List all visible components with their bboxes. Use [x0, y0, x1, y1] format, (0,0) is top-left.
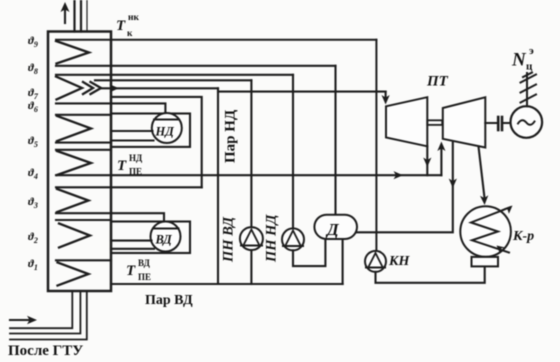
ND drum riser/downcomer wires — [111, 130, 153, 132]
condenser cooling water zigzag with arrows — [471, 206, 513, 254]
VD drum box — [111, 222, 190, 254]
coil C6 (HP evaporator) zigzag — [59, 224, 90, 248]
svg-text:НД: НД — [155, 125, 175, 139]
deaerator Д — [314, 215, 357, 239]
coil C4 zigzag — [57, 151, 91, 175]
coil C3 (HP economizer) zigzag — [57, 116, 91, 141]
svg-text:ϑ4: ϑ4 — [28, 167, 38, 181]
svg-text:Пар НД: Пар НД — [223, 109, 239, 163]
wire: C3 top line — [56, 114, 111, 116]
condenser K-p — [460, 206, 511, 257]
svg-text:НД: НД — [129, 153, 143, 163]
svg-text:ϑ2: ϑ2 — [28, 231, 38, 245]
wire: C3 bottom line — [56, 142, 111, 144]
generator electrical lead with phase slashes — [521, 73, 537, 107]
wire: Par ND steam line with arrow — [101, 84, 218, 92]
coil C5 (LP evaporator 2) zigzag — [57, 189, 89, 212]
label Tк-нк — [116, 13, 139, 39]
VD drum circle — [151, 222, 181, 252]
ND drum water level chord — [154, 119, 179, 121]
svg-text:ϑ5: ϑ5 — [28, 135, 38, 149]
svg-text:ϑ3: ϑ3 — [28, 196, 38, 210]
wire: riser x=292 down to PN-ND pump — [292, 75, 294, 229]
svg-text:э: э — [529, 45, 534, 57]
wire: bottom header left part and risers — [342, 239, 344, 284]
ND drum feed line — [56, 103, 165, 113]
turbine shaft HP-LP — [427, 120, 442, 125]
coil C7 (HP superheater) zigzag — [58, 263, 89, 286]
wire: VD drum feed line — [56, 213, 164, 223]
wire: PN-VD suction down — [250, 250, 252, 284]
svg-text:ϑ9: ϑ9 — [28, 35, 38, 49]
svg-text:ϑ1: ϑ1 — [28, 258, 38, 272]
wire: LP admission riser with up arrow — [437, 142, 445, 176]
LP turbine cylinder — [443, 97, 486, 147]
wire: KH suction from condenser hotwell — [376, 266, 485, 282]
VD drum riser/downcomer wires — [111, 240, 152, 242]
svg-text:Пар ВД: Пар ВД — [145, 293, 193, 308]
svg-text:После ГТУ: После ГТУ — [8, 343, 83, 359]
svg-text:ПЕ: ПЕ — [138, 272, 151, 282]
svg-text:К-р: К-р — [512, 229, 534, 244]
feed pump PN-VD — [240, 227, 263, 250]
svg-text:ПТ: ПТ — [426, 74, 449, 90]
wire: PN-ND suction from deaerator — [293, 239, 325, 266]
wire: drum ND steam outlet line — [95, 79, 251, 81]
coil C1 (condensate heater) zigzag — [56, 41, 89, 64]
svg-text:ПН ВД: ПН ВД — [221, 216, 237, 263]
wire: HP exhaust down arrow — [423, 146, 431, 175]
wire: C1 top line to KH pump riser — [56, 39, 376, 41]
condenser hotwell — [472, 257, 499, 267]
HRSG duct casing — [48, 32, 111, 292]
svg-text:ц: ц — [526, 61, 533, 73]
svg-text:ВД: ВД — [138, 258, 151, 268]
wire: C5 top line (loop bottom) — [56, 186, 202, 188]
generator G — [511, 106, 543, 138]
svg-text:нк: нк — [128, 13, 139, 23]
label N power — [511, 45, 534, 73]
svg-text:T: T — [117, 158, 127, 174]
wire: Par VD steam line to HP turbine — [218, 91, 386, 93]
wire: HP steam bottom header line — [111, 283, 343, 285]
wire: LP extraction to deaerator — [357, 141, 457, 232]
shaft coupling to generator — [485, 117, 510, 130]
ND drum circuit loop — [111, 97, 202, 187]
svg-text:ВД: ВД — [155, 233, 173, 247]
feed pump PN-ND — [282, 228, 304, 250]
wire: Par ND vertical channel — [217, 88, 219, 284]
ND drum circle — [152, 113, 182, 143]
label T-PE-VD — [126, 258, 151, 282]
gas inlet duct bends (После ГТУ) — [10, 291, 87, 340]
svg-text:Д: Д — [325, 220, 340, 239]
condensate pump KH — [365, 251, 386, 272]
label T-PE-ND — [117, 153, 143, 177]
svg-text:ϑ7: ϑ7 — [28, 87, 39, 101]
ND drum box — [111, 114, 190, 147]
wire: HP inlet down arrow — [382, 92, 390, 105]
exhaust stack pipe — [75, 0, 88, 32]
svg-text:N: N — [511, 50, 527, 71]
wire: C1 bottom line to deaerator feed — [56, 65, 336, 67]
LP superheater nested zigzag — [83, 82, 93, 94]
coil C2 (LP evaporator) zigzag — [56, 77, 82, 100]
VD drum water level chord — [153, 228, 179, 230]
svg-text:ПН НД: ПН НД — [264, 214, 280, 263]
wire: long LP steam line to LP turbine — [56, 174, 441, 176]
svg-text:T: T — [116, 18, 126, 34]
wire: C6 top line — [56, 219, 111, 221]
gas temperature labels θ9..θ1 — [28, 35, 39, 272]
gas inlet arrow — [10, 316, 37, 324]
svg-text:ϑ6: ϑ6 — [28, 100, 38, 114]
svg-text:КН: КН — [388, 254, 410, 269]
wire: C2 top line to PN-ND pump — [56, 74, 293, 76]
exhaust gas up arrow — [61, 2, 70, 23]
svg-text:ϑ8: ϑ8 — [28, 62, 38, 76]
wire: riser x=336 down to deaerator top — [334, 66, 336, 215]
svg-text:к: к — [127, 29, 133, 39]
wire: C4 top line — [56, 149, 111, 151]
wire: C7 top line — [56, 259, 111, 261]
wire: arrow on LP steam line — [394, 171, 404, 179]
wire: riser x=376.4 down to KH pump — [375, 40, 377, 252]
wire: riser x=251.4 down to PN-VD pump — [250, 80, 252, 226]
HP turbine cylinder — [386, 97, 427, 146]
svg-text:T: T — [126, 263, 136, 279]
wire: LP exhaust to condenser with arrow — [479, 147, 489, 206]
